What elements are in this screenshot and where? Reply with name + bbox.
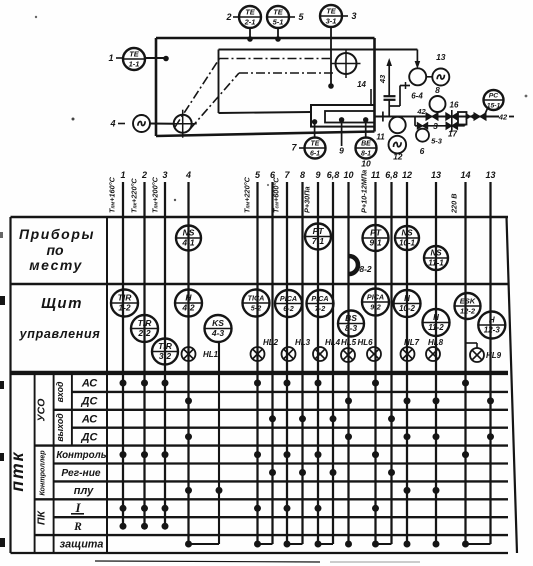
svg-text:5-1: 5-1 bbox=[273, 18, 284, 27]
svg-text:ESK: ESK bbox=[460, 297, 476, 306]
svg-text:BS: BS bbox=[345, 313, 357, 323]
svg-text:2: 2 bbox=[225, 12, 231, 22]
svg-text:Р+10-12МПа: Р+10-12МПа bbox=[360, 170, 369, 213]
svg-text:ПК: ПК bbox=[36, 509, 48, 525]
svg-text:PICA: PICA bbox=[280, 294, 297, 303]
svg-text:Рег-ние: Рег-ние bbox=[61, 468, 101, 479]
svg-text:PICA: PICA bbox=[367, 293, 384, 302]
svg-text:TE: TE bbox=[129, 50, 140, 59]
svg-text:5-2: 5-2 bbox=[251, 304, 261, 313]
svg-text:220 В: 220 В bbox=[450, 194, 459, 214]
svg-text:3: 3 bbox=[351, 11, 356, 21]
svg-text:H: H bbox=[404, 294, 410, 303]
svg-text:H: H bbox=[433, 313, 439, 322]
svg-text:10: 10 bbox=[361, 159, 371, 169]
svg-text:PICA: PICA bbox=[311, 294, 328, 303]
svg-text:11: 11 bbox=[376, 133, 385, 142]
svg-text:TIR: TIR bbox=[138, 318, 153, 328]
svg-text:4-3: 4-3 bbox=[211, 328, 225, 338]
svg-text:3: 3 bbox=[162, 170, 167, 180]
svg-text:HL9: HL9 bbox=[486, 351, 502, 360]
svg-text:R: R bbox=[73, 521, 82, 533]
svg-text:8-1: 8-1 bbox=[361, 151, 371, 158]
svg-text:BE: BE bbox=[361, 141, 371, 148]
svg-text:АС: АС bbox=[81, 413, 98, 425]
svg-text:TIR: TIR bbox=[158, 341, 173, 351]
svg-text:УСО: УСО bbox=[36, 399, 48, 422]
svg-text:2-1: 2-1 bbox=[244, 18, 256, 27]
svg-text:12-2: 12-2 bbox=[460, 307, 476, 316]
svg-text:плу: плу bbox=[74, 485, 94, 497]
svg-text:TE: TE bbox=[311, 141, 320, 148]
svg-text:PC: PC bbox=[489, 93, 499, 100]
svg-text:HL3: HL3 bbox=[295, 338, 311, 347]
svg-text:11: 11 bbox=[371, 170, 380, 180]
svg-text:3-2: 3-2 bbox=[159, 351, 172, 361]
svg-text:HL7: HL7 bbox=[404, 338, 420, 347]
svg-text:TE: TE bbox=[245, 8, 256, 17]
svg-text:7-1: 7-1 bbox=[312, 236, 325, 246]
svg-text:TE: TE bbox=[326, 7, 337, 16]
svg-text:HL2: HL2 bbox=[263, 338, 279, 347]
svg-text:4: 4 bbox=[185, 170, 191, 180]
svg-text:14: 14 bbox=[460, 170, 470, 180]
svg-text:месту: месту bbox=[29, 257, 83, 273]
svg-text:13: 13 bbox=[436, 52, 446, 62]
svg-text:11-2: 11-2 bbox=[428, 323, 444, 332]
svg-text:NS: NS bbox=[430, 249, 442, 258]
svg-text:3: 3 bbox=[433, 121, 438, 131]
svg-text:10: 10 bbox=[343, 170, 353, 180]
svg-text:10-2: 10-2 bbox=[399, 304, 416, 313]
svg-text:H: H bbox=[185, 293, 192, 303]
svg-text:HL5: HL5 bbox=[341, 338, 357, 347]
svg-text:ДС: ДС bbox=[81, 431, 99, 443]
svg-text:8: 8 bbox=[300, 170, 305, 180]
svg-text:15-1: 15-1 bbox=[487, 103, 501, 110]
svg-text:7-2: 7-2 bbox=[315, 304, 325, 313]
svg-text:5-3: 5-3 bbox=[431, 137, 443, 146]
svg-text:1-1: 1-1 bbox=[129, 60, 140, 69]
svg-text:10-1: 10-1 bbox=[399, 239, 416, 248]
svg-text:14: 14 bbox=[357, 80, 366, 89]
svg-text:TIR: TIR bbox=[118, 293, 133, 303]
svg-text:вход: вход bbox=[55, 381, 65, 402]
svg-text:Контроллер: Контроллер bbox=[38, 450, 47, 496]
svg-text:Р+30Па: Р+30Па bbox=[303, 186, 312, 213]
svg-text:Приборы: Приборы bbox=[19, 226, 95, 242]
svg-text:6: 6 bbox=[420, 146, 425, 156]
svg-text:4: 4 bbox=[109, 119, 115, 129]
svg-text:13: 13 bbox=[485, 170, 495, 180]
svg-text:1: 1 bbox=[120, 170, 125, 180]
svg-text:TICA: TICA bbox=[248, 294, 265, 303]
svg-text:9: 9 bbox=[339, 146, 344, 156]
svg-text:1: 1 bbox=[108, 53, 113, 63]
svg-text:3-1: 3-1 bbox=[326, 17, 337, 26]
svg-text:9-2: 9-2 bbox=[370, 303, 380, 312]
svg-text:TE: TE bbox=[273, 8, 284, 17]
svg-text:8-3: 8-3 bbox=[345, 323, 358, 333]
svg-text:12: 12 bbox=[393, 152, 403, 162]
svg-text:6,8: 6,8 bbox=[385, 170, 398, 180]
svg-text:4-1: 4-1 bbox=[181, 238, 195, 248]
svg-text:Контроль: Контроль bbox=[56, 450, 106, 461]
svg-text:ДС: ДС bbox=[81, 395, 99, 407]
svg-text:43: 43 bbox=[378, 74, 387, 84]
svg-text:NS: NS bbox=[401, 229, 413, 238]
svg-text:12-3: 12-3 bbox=[484, 326, 501, 335]
svg-text:HL6: HL6 bbox=[358, 338, 374, 347]
svg-text:HL1: HL1 bbox=[203, 350, 219, 359]
svg-text:Щит: Щит bbox=[41, 295, 83, 312]
svg-text:птк: птк bbox=[7, 450, 27, 491]
svg-text:9-1: 9-1 bbox=[369, 238, 382, 248]
svg-text:16: 16 bbox=[450, 101, 459, 110]
svg-text:11-1: 11-1 bbox=[428, 259, 444, 268]
svg-text:8: 8 bbox=[435, 85, 440, 95]
svg-text:13: 13 bbox=[431, 170, 441, 180]
svg-text:I: I bbox=[74, 500, 81, 515]
svg-text:1-2: 1-2 bbox=[118, 303, 131, 313]
svg-text:42: 42 bbox=[416, 107, 426, 116]
svg-text:8-2: 8-2 bbox=[359, 264, 372, 274]
svg-text:42: 42 bbox=[498, 113, 508, 122]
svg-text:защита: защита bbox=[60, 539, 104, 551]
svg-text:АС: АС bbox=[81, 378, 98, 390]
svg-text:выход: выход bbox=[55, 413, 65, 442]
svg-text:по: по bbox=[46, 242, 64, 258]
svg-text:12: 12 bbox=[402, 170, 412, 180]
svg-text:PT: PT bbox=[370, 228, 382, 238]
svg-text:PT: PT bbox=[313, 226, 325, 236]
svg-text:6-4: 6-4 bbox=[411, 92, 423, 101]
svg-text:9: 9 bbox=[315, 170, 320, 180]
svg-text:6-1: 6-1 bbox=[310, 151, 320, 158]
svg-text:4-2: 4-2 bbox=[181, 303, 195, 313]
svg-text:HL4: HL4 bbox=[325, 338, 341, 347]
svg-text:H: H bbox=[489, 316, 495, 325]
svg-text:6,8: 6,8 bbox=[327, 170, 340, 180]
svg-text:NS: NS bbox=[183, 228, 195, 238]
svg-text:6-2: 6-2 bbox=[283, 304, 293, 313]
svg-text:2: 2 bbox=[141, 170, 147, 180]
svg-text:HL8: HL8 bbox=[428, 338, 444, 347]
svg-text:2-2: 2-2 bbox=[137, 328, 151, 338]
svg-text:управления: управления bbox=[19, 327, 101, 341]
svg-text:17: 17 bbox=[448, 130, 457, 139]
svg-text:KS: KS bbox=[212, 318, 224, 328]
